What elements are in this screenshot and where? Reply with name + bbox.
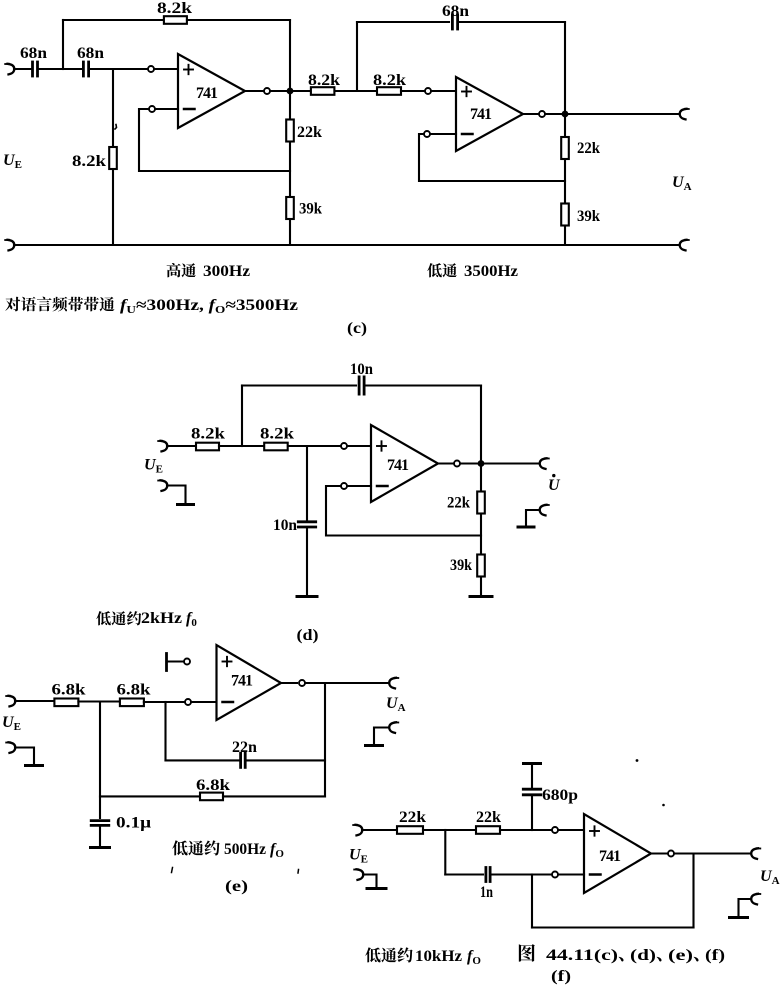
label U-dot circuit (d) bbox=[548, 474, 561, 494]
node B junction to R2 bbox=[112, 69, 114, 245]
wire (d) output ground L bbox=[526, 510, 540, 526]
svg-text:(d): (d) bbox=[297, 627, 319, 644]
label 8.2k for R10 bbox=[260, 426, 294, 443]
svg-text:741: 741 bbox=[196, 85, 218, 102]
svg-text:8.2k: 8.2k bbox=[308, 72, 340, 89]
wire 1n left (f) bbox=[445, 873, 483, 875]
label 68n for C2 bbox=[77, 45, 104, 62]
wire input to C1 bbox=[14, 68, 32, 70]
wire circle to op-amp U5 + bbox=[559, 829, 584, 831]
ground bar (d) input bbox=[178, 503, 194, 506]
ground bar (e) output bbox=[366, 744, 383, 747]
label (d) bbox=[297, 627, 319, 644]
svg-text:22k: 22k bbox=[297, 124, 322, 141]
wire (d) top feedback left bbox=[242, 384, 356, 386]
op-amp U3 741 bbox=[371, 425, 438, 502]
svg-text:500Hz: 500Hz bbox=[224, 841, 266, 858]
label ditongyue 2kHz f0 bbox=[96, 610, 197, 629]
wire (d) input ground L bbox=[167, 486, 186, 504]
wire top feedback right bbox=[187, 19, 290, 21]
circuit (f) output ground terminal bbox=[751, 894, 760, 905]
svg-text:3500Hz: 3500Hz bbox=[464, 263, 518, 280]
wire C2 to plus input bbox=[89, 68, 147, 70]
label 680p for C8 bbox=[542, 787, 578, 804]
circuit (e) input terminal bbox=[6, 696, 15, 707]
label 39k for R12 bbox=[450, 557, 472, 574]
wire stage2 top left bbox=[357, 21, 449, 23]
svg-text:(e): (e) bbox=[225, 878, 248, 895]
label 6.8k for R14 bbox=[117, 682, 151, 699]
label 8.2k for R6 bbox=[373, 72, 406, 89]
svg-text:22k: 22k bbox=[447, 495, 470, 512]
node H output junction U3 bbox=[478, 460, 485, 467]
wire R9 to R10 bbox=[219, 445, 264, 447]
wire R6 to plus circle bbox=[401, 90, 424, 92]
label UE circuit (d) bbox=[144, 457, 163, 476]
pin circle output U4 bbox=[299, 680, 305, 686]
pin circle + input U2 bbox=[425, 88, 431, 94]
svg-text:0.1μ: 0.1μ bbox=[116, 815, 151, 832]
capacitor C7 0.1u (e shunt) bbox=[91, 821, 109, 826]
resistor R11 22k (d divider top) bbox=[477, 492, 485, 514]
label 8.2k for R2 bbox=[72, 153, 106, 170]
svg-text:22n: 22n bbox=[232, 739, 257, 756]
label 22k for R3 bbox=[297, 124, 322, 141]
wire R14 to minus circle (e) bbox=[144, 701, 184, 703]
pin circle - input U2 bbox=[424, 131, 430, 137]
svg-text:39k: 39k bbox=[299, 201, 322, 218]
pin circle + input U5 bbox=[552, 827, 558, 833]
wire 6.8k feedback right (e) bbox=[223, 795, 325, 797]
wire R16 to R17 bbox=[423, 829, 476, 831]
label 8.2k for R5 bbox=[308, 72, 340, 89]
pin circle output U3 bbox=[454, 461, 460, 467]
circuit (f) input ground terminal bbox=[354, 869, 363, 880]
wire R13 to R14 bbox=[78, 700, 120, 702]
resistor R7 22k (U2 divider top) bbox=[561, 137, 569, 159]
node E output junction U2 bbox=[562, 111, 569, 118]
svg-text:8.2k: 8.2k bbox=[157, 0, 192, 17]
circuit (d) input ground terminal bbox=[158, 480, 167, 491]
svg-text:8.2k: 8.2k bbox=[373, 72, 406, 89]
svg-text:68n: 68n bbox=[442, 3, 469, 20]
resistor R15 6.8k (e feedback) bbox=[200, 793, 223, 801]
resistor R17 22k (f series 2) bbox=[476, 826, 500, 834]
circuit (e) input ground terminal bbox=[6, 742, 15, 753]
node: circuit (c) input terminal top bbox=[5, 64, 14, 75]
label 22k for R16 bbox=[399, 809, 426, 826]
wire output circle to node C bbox=[271, 90, 290, 92]
svg-text:8.2k: 8.2k bbox=[260, 426, 294, 443]
wire output circle to node E bbox=[546, 113, 565, 115]
label UA circuit (f) bbox=[760, 868, 780, 887]
label 68n for C1 bbox=[20, 45, 47, 62]
svg-text:10n: 10n bbox=[350, 361, 373, 378]
pin circle + input U4 bbox=[184, 659, 190, 665]
svg-text:39k: 39k bbox=[450, 557, 472, 574]
op-amp U1 741 bbox=[178, 54, 245, 128]
wire node E to output terminal bbox=[569, 113, 679, 115]
svg-text:(d): (d) bbox=[630, 947, 656, 964]
node J junction to 22n bbox=[164, 702, 166, 760]
wire node E vertical bbox=[564, 22, 566, 245]
label 8.2k for R1 bbox=[157, 0, 192, 17]
wire node C to R5 bbox=[294, 90, 311, 92]
node F junction to top feedback (d) bbox=[241, 386, 243, 447]
label 10n for C4 bbox=[350, 361, 373, 378]
label 39k for R4 bbox=[299, 201, 322, 218]
wire 22n left (e) bbox=[166, 759, 240, 761]
svg-text:741: 741 bbox=[470, 106, 492, 123]
circuit (d) output ground terminal bbox=[540, 505, 549, 516]
svg-text:(f): (f) bbox=[705, 947, 725, 964]
svg-text:U: U bbox=[548, 477, 561, 494]
wire U1 output bbox=[245, 90, 263, 92]
caption figure 44.11 bbox=[519, 944, 725, 964]
svg-text:8.2k: 8.2k bbox=[72, 153, 106, 170]
pin circle output U5 bbox=[668, 851, 674, 857]
wire 6.8k feedback left (e) bbox=[100, 795, 200, 797]
resistor R14 6.8k (e series 2) bbox=[120, 699, 144, 707]
svg-text:1n: 1n bbox=[480, 884, 493, 901]
wire U5 output bbox=[651, 852, 667, 854]
pin circle - input U3 bbox=[341, 483, 347, 489]
label 6.8k for R15 bbox=[196, 777, 230, 794]
label UE circuit (f) bbox=[349, 847, 368, 866]
wire (d) top feedback right bbox=[365, 384, 482, 386]
svg-text:(f): (f) bbox=[551, 968, 571, 985]
capacitor C6 22n (e inner feedback) bbox=[241, 753, 246, 767]
label UE circuit (c) bbox=[3, 152, 22, 171]
svg-text:10kHz: 10kHz bbox=[415, 948, 462, 965]
wire U5 feedback bottom bbox=[532, 926, 694, 928]
wire C1 to junction A bbox=[38, 68, 83, 70]
resistor R2 8.2k (to bottom rail) bbox=[109, 147, 117, 169]
wire bottom rail circuit (c) bbox=[14, 244, 679, 246]
capacitor C2 68n bbox=[83, 62, 88, 76]
node D junction bbox=[356, 22, 358, 91]
wire circle to op-amp U4 - bbox=[192, 701, 217, 703]
svg-text:6.8k: 6.8k bbox=[52, 682, 86, 699]
node I junction (e) bbox=[99, 702, 101, 819]
wire C7 to ground (e) bbox=[99, 825, 101, 846]
wire + stub (e) bbox=[167, 660, 184, 662]
label 0.1u for C7 bbox=[116, 815, 151, 832]
wire (e) input ground L bbox=[15, 748, 34, 765]
wire C5 to ground bbox=[306, 527, 308, 596]
wire circle to op-amp U5 - bbox=[559, 873, 584, 875]
label 68n for C3 bbox=[442, 3, 469, 20]
wire U3 feedback from - input bbox=[326, 486, 481, 536]
svg-text:2kHz: 2kHz bbox=[141, 610, 182, 627]
wire U1 feedback from - input bbox=[139, 109, 290, 171]
node C output junction U1 bbox=[287, 88, 294, 95]
wire circle to op-amp U3 + bbox=[348, 445, 371, 447]
svg-text:741: 741 bbox=[231, 673, 253, 690]
wire stage2 top right bbox=[458, 21, 565, 23]
capacitor C5 10n (d shunt) bbox=[298, 522, 315, 527]
scan speck right of 741 U5 bbox=[662, 804, 665, 807]
op-amp U4 741 bbox=[217, 645, 282, 720]
resistor R1 8.2k (feedback top) bbox=[164, 16, 187, 24]
node L junction (f) bbox=[444, 830, 446, 875]
wire circle to op-amp U3 - bbox=[348, 485, 371, 487]
wire top feedback left bbox=[63, 19, 164, 21]
resistor R9 8.2k (d series 1) bbox=[196, 443, 219, 451]
circuit (f) output terminal bbox=[751, 848, 760, 859]
svg-text:68n: 68n bbox=[20, 45, 47, 62]
svg-text:680p: 680p bbox=[542, 787, 578, 804]
label 22n for C6 bbox=[232, 739, 257, 756]
scan speck left of (e) caption bbox=[172, 868, 173, 873]
wire U2 output bbox=[523, 113, 538, 115]
wire 22n right (e) bbox=[246, 759, 325, 761]
svg-text:22k: 22k bbox=[399, 809, 426, 826]
svg-text:22k: 22k bbox=[577, 140, 600, 157]
label 1n for C9 bbox=[480, 884, 493, 901]
op-amp U5 741 bbox=[584, 814, 651, 893]
label UA circuit (c) bbox=[672, 174, 692, 193]
ground bar (f) input bbox=[367, 887, 386, 890]
label ditongyue 10kHz fO bbox=[365, 947, 481, 967]
wire (f) input to R16 bbox=[362, 829, 397, 831]
node M junction to 680p bbox=[531, 795, 533, 830]
label 10n for C5 bbox=[273, 517, 297, 534]
label ditongyue 500Hz fO bbox=[172, 840, 284, 860]
label ditong 3500Hz bbox=[427, 263, 518, 280]
wire R17 to plus circle (f) bbox=[500, 829, 551, 831]
svg-text:6.8k: 6.8k bbox=[196, 777, 230, 794]
label UA circuit (e) bbox=[386, 695, 406, 714]
scan speck near node B bbox=[115, 125, 117, 130]
wire circle to op-amp U1 + bbox=[155, 68, 178, 70]
label 39k for R8 bbox=[577, 208, 600, 225]
wire output circle to node H bbox=[461, 462, 477, 464]
capacitor C1 68n (input) bbox=[33, 62, 38, 76]
resistor R16 22k (f series 1) bbox=[397, 826, 423, 834]
svg-text:8.2k: 8.2k bbox=[191, 426, 225, 443]
ground bar (e) input bbox=[26, 764, 43, 767]
wire (f) output ground L bbox=[739, 899, 752, 916]
label (f) bbox=[551, 968, 571, 985]
wire node H down bbox=[480, 464, 482, 597]
svg-text:22k: 22k bbox=[476, 809, 501, 826]
label UE circuit (e) bbox=[2, 714, 21, 733]
circuit (e) output terminal bbox=[389, 678, 398, 689]
resistor R5 8.2k (stage2 series 1) bbox=[311, 87, 335, 95]
wire C8 up bbox=[531, 764, 533, 790]
wire U2 feedback from - input bbox=[419, 134, 565, 181]
wire circle to op-amp U1 - bbox=[156, 108, 178, 110]
svg-text:10n: 10n bbox=[273, 517, 297, 534]
label 22k for R17 bbox=[476, 809, 501, 826]
wire node C vertical bbox=[289, 20, 291, 245]
circuit (c) input terminal bottom bbox=[5, 240, 14, 251]
wire U5 feedback vertical bbox=[531, 875, 533, 928]
circuit (f) input terminal bbox=[353, 825, 362, 836]
wire output to terminal (f) bbox=[675, 852, 751, 854]
wire U5 output vertical bbox=[692, 854, 694, 928]
wire output to terminal (e) bbox=[306, 682, 389, 684]
wire node H top vertical bbox=[480, 386, 482, 464]
label 6.8k for R13 bbox=[52, 682, 86, 699]
node A junction between 68n caps bbox=[62, 20, 64, 69]
resistor R4 39k (U1 divider bottom) bbox=[286, 197, 294, 219]
capacitor C8 680p (f to rail) bbox=[523, 789, 540, 795]
wire R10 to plus circle (d) bbox=[288, 445, 340, 447]
wire U3 output bbox=[438, 462, 453, 464]
capacitor C9 1n (f) bbox=[486, 868, 490, 882]
resistor R3 22k (U1 divider top) bbox=[286, 120, 294, 142]
label 8.2k for R9 bbox=[191, 426, 225, 443]
svg-text:44.11(c): 44.11(c) bbox=[546, 947, 618, 964]
circuit (d) input terminal bbox=[158, 441, 167, 452]
pin circle + input U1 bbox=[148, 66, 154, 72]
pin circle + input U3 bbox=[341, 443, 347, 449]
circuit (c) output terminal top bbox=[680, 109, 689, 120]
label 22k for R7 bbox=[577, 140, 600, 157]
label (e) bbox=[225, 878, 248, 895]
svg-text:741: 741 bbox=[599, 848, 621, 865]
node G junction to C5 bbox=[306, 446, 308, 522]
pin circle - input U5 bbox=[552, 872, 558, 878]
circuit (c) output terminal bottom bbox=[680, 240, 689, 251]
capacitor C3 68n (stage2 feedback) bbox=[452, 15, 457, 29]
resistor R13 6.8k (e series 1) bbox=[54, 699, 78, 707]
resistor R6 8.2k (stage2 series 2) bbox=[377, 87, 401, 95]
resistor R8 39k (U2 divider bottom) bbox=[561, 204, 569, 226]
svg-text:(e): (e) bbox=[668, 947, 693, 964]
capacitor C4 10n (d feedback) bbox=[359, 377, 364, 394]
ground for C5 bbox=[297, 595, 317, 598]
wire (d) input to R9 bbox=[167, 445, 196, 447]
wire circle to op-amp U2 - bbox=[431, 133, 456, 135]
op-amp U2 741 bbox=[456, 77, 523, 151]
pin circle - input U1 bbox=[149, 106, 155, 112]
rail bar above C8 bbox=[524, 762, 541, 765]
wire (f) input ground L bbox=[363, 875, 377, 888]
pin circle output U2 bbox=[539, 111, 545, 117]
svg-text:39k: 39k bbox=[577, 208, 600, 225]
label 22k for R11 bbox=[447, 495, 470, 512]
wire 1n right (f) bbox=[491, 873, 551, 875]
ground for C7 bbox=[91, 846, 110, 849]
node K output junction (e) bbox=[324, 683, 326, 796]
wire U4 output bbox=[281, 682, 297, 684]
label (c) bbox=[347, 320, 367, 337]
resistor R10 8.2k (d series 2) bbox=[264, 443, 288, 451]
caption line bandpass bbox=[5, 297, 298, 316]
ground tick + input (e) bbox=[165, 654, 168, 671]
ground bar (f) output bbox=[730, 916, 748, 919]
circuit (e) output ground terminal bbox=[389, 722, 398, 733]
svg-text:300Hz: 300Hz bbox=[203, 263, 250, 280]
resistor R12 39k (d divider bottom) bbox=[477, 555, 485, 577]
svg-text:68n: 68n bbox=[77, 45, 104, 62]
ground for R12 bbox=[470, 595, 492, 598]
pin circle - input U4 bbox=[185, 699, 191, 705]
circuit (d) output terminal bbox=[540, 458, 549, 469]
svg-text:6.8k: 6.8k bbox=[117, 682, 151, 699]
wire node H to output terminal (d) bbox=[485, 462, 540, 464]
wire circle to op-amp U2 + bbox=[432, 90, 456, 92]
svg-text:(c): (c) bbox=[347, 320, 367, 337]
scan speck above op-amp U5 bbox=[636, 759, 639, 762]
pin circle output U1 bbox=[264, 88, 270, 94]
ground bar (d) output bbox=[518, 526, 534, 529]
wire R5 to node D bbox=[335, 90, 378, 92]
svg-text:fU≈300Hz, fO≈3500Hz: fU≈300Hz, fO≈3500Hz bbox=[120, 297, 298, 316]
svg-text:741: 741 bbox=[387, 457, 409, 474]
wire (e) input to R13 bbox=[15, 700, 54, 702]
scan speck right of (e) caption bbox=[297, 870, 300, 874]
label gaotong 300Hz bbox=[167, 263, 250, 280]
wire (e) output ground L bbox=[374, 728, 389, 745]
